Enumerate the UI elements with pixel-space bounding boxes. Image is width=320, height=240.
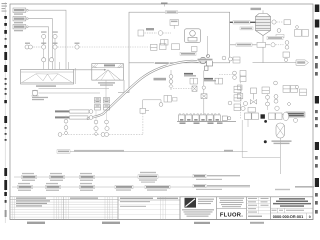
row B label 6: [193, 184, 250, 190]
standpipe: [143, 100, 161, 135]
instrument bubble pair left: [25, 45, 32, 49]
lower bubble column 1: [64, 119, 68, 134]
footer stamp 1: [27, 222, 45, 224]
blower discharge line 2: [39, 92, 101, 94]
V2 sub label: [98, 82, 115, 86]
mill feed box: [248, 108, 256, 113]
right margin note B: [275, 189, 290, 190]
stacked bubbles C: [266, 94, 270, 110]
info text: [248, 198, 269, 217]
lower bubble column 2: [94, 120, 98, 136]
analyzer boxes: [295, 26, 309, 37]
title separator: [271, 208, 314, 219]
instrument stack A stem: [43, 34, 45, 69]
box pair mid: [161, 40, 169, 46]
instrument bubble right: [75, 45, 79, 49]
control valve CV1: [250, 88, 256, 104]
dashed tap to X-box: [173, 88, 192, 90]
X-box: [192, 86, 197, 91]
top instrument box T1: [170, 20, 179, 29]
head box pair right: [240, 71, 246, 82]
left microfilm marks: [4, 16, 7, 217]
instrument stack B stem: [54, 34, 56, 69]
stray bubble: [228, 101, 232, 105]
row B label 4: [115, 185, 133, 190]
source flag F3: [13, 25, 28, 32]
V3 instruments right: [272, 20, 291, 33]
row B label 3: [80, 183, 95, 191]
bottoms label: [267, 36, 283, 39]
unit inner marks: [180, 119, 219, 120]
grid feed stub: [105, 80, 107, 97]
client logo: [185, 198, 197, 208]
crusher enclosure box: [129, 12, 230, 63]
V2 corner hatch right: [118, 64, 124, 68]
enclosure left leg: [128, 63, 130, 93]
footer stamp 2: [102, 222, 120, 224]
blower B1: [32, 90, 39, 96]
V2 bottoms pipe: [118, 80, 129, 93]
film strip header text: [2, 3, 8, 12]
small box right: [173, 98, 178, 102]
row A label 4: [138, 172, 158, 183]
head bubbles right: [222, 56, 236, 79]
boxes under crusher: [160, 44, 198, 52]
film strip line: [4, 2, 6, 223]
instrument stack C: [169, 70, 173, 90]
small diamond: [287, 102, 291, 106]
notes line N1: [57, 150, 248, 153]
offpage connector arrow: [296, 60, 309, 65]
source flag F2: [13, 17, 28, 24]
drop lines LR: [242, 119, 280, 157]
V2 header label: [104, 64, 115, 66]
blower tag text: [32, 97, 48, 100]
svg-text:FLUOR.: FLUOR.: [220, 211, 243, 218]
boxes right of head top: [233, 57, 240, 63]
bubble column stems: [66, 110, 107, 132]
line from F1: [28, 10, 66, 69]
reference drawing table: [118, 197, 180, 220]
right cluster boxes E: [283, 85, 307, 95]
junction dot: [264, 140, 267, 143]
signal line S-134: [58, 133, 143, 137]
line from F2: [28, 19, 52, 70]
mixer labels: [272, 140, 292, 144]
boxes A2: [234, 104, 241, 111]
head label 2: [204, 78, 216, 82]
certification text: [219, 198, 244, 208]
dark tag line: [272, 112, 305, 117]
V3 side label: [240, 27, 253, 30]
info grid: [247, 197, 271, 214]
signal dashes: [34, 46, 42, 48]
revision table grid: [10, 197, 118, 220]
revision entries: [16, 198, 98, 207]
hopper boxes row LR: [245, 112, 298, 122]
row A label 3: [80, 173, 95, 181]
head label 1: [184, 73, 196, 77]
row B label 2: [46, 183, 61, 191]
junction dot upper: [264, 120, 267, 123]
vessel V2 stacker bin: [92, 64, 124, 81]
row A label 2: [50, 173, 65, 181]
logo side text: [198, 199, 214, 205]
feeder label B: [55, 116, 69, 118]
instrument box grid text: [96, 98, 109, 106]
V2 corner hatch left: [93, 64, 99, 68]
enclosure inner label: [146, 28, 154, 30]
mill feed circle: [241, 106, 245, 110]
dark unit: [261, 114, 265, 118]
product line row: [230, 41, 289, 50]
enclosure drop: [207, 36, 209, 56]
V1 label: [36, 85, 56, 87]
squares drop line: [203, 71, 205, 115]
head signal dashes: [219, 74, 233, 76]
footer stamp 3: [194, 222, 210, 224]
row A label 5: [193, 174, 240, 180]
title block frame: [180, 197, 313, 220]
right margin note A: [295, 186, 314, 188]
continuation row B line: [12, 186, 250, 188]
V3 feed line: [230, 21, 256, 24]
enclosure label: [166, 11, 178, 14]
stack B bubbles: [49, 34, 57, 62]
V1 outlet line: [74, 68, 76, 84]
line from F3: [28, 27, 48, 70]
lower bubble column 3: [105, 120, 110, 131]
reference rows: [118, 205, 180, 215]
signal dashes mid: [58, 46, 75, 48]
footer stamp 4: [250, 222, 264, 224]
revision table: [10, 197, 118, 220]
V3 top label: [251, 8, 262, 10]
mixer M1 capsule: [276, 123, 285, 174]
head label upper: [197, 58, 213, 60]
scale text: [272, 210, 305, 211]
sampler box: [283, 52, 290, 62]
bagging units row: [177, 115, 236, 122]
right cluster boxes A: [234, 86, 241, 101]
vessel V1 dust collector: [21, 69, 74, 84]
right cluster boxes B: [262, 87, 269, 94]
fluor box separator: [217, 207, 247, 209]
V3 bottoms line: [262, 36, 264, 63]
panel box: [151, 44, 158, 50]
crusher CR1: [185, 29, 201, 43]
PSV mark: [276, 35, 284, 38]
source flag F1: [13, 8, 28, 15]
svg-text:0: 0: [309, 215, 311, 219]
belt feeder A: [70, 110, 89, 113]
row B label 1: [18, 183, 33, 191]
stacked bubbles D: [274, 81, 280, 110]
address text: [182, 209, 214, 217]
drawing title: [273, 198, 311, 207]
continuation row A line: [14, 176, 196, 178]
column vessel V3: [256, 14, 271, 36]
standpipe gauge 1: [140, 108, 149, 113]
offpage connector line: [253, 62, 297, 64]
belt end bubbles: [89, 110, 93, 120]
conveyor label top: [180, 52, 196, 55]
conveyor label mid2: [154, 62, 170, 65]
drop bubble: [202, 86, 205, 89]
V3 vent stub: [262, 10, 264, 13]
tag text above stacks: [41, 31, 58, 32]
box row left: [138, 30, 171, 36]
unit top circles: [179, 113, 220, 115]
row A label 1: [22, 173, 37, 181]
right small boxes: [238, 85, 243, 99]
right microfilm marks: [315, 5, 320, 214]
row B label 5: [145, 185, 170, 190]
stack A bubbles: [42, 34, 46, 62]
box pair BR: [215, 78, 223, 84]
conveyor head H1: [200, 55, 213, 71]
conveyor label mid: [154, 78, 167, 81]
box pair BL: [190, 78, 198, 84]
reference header text: [120, 198, 178, 207]
drop X-box: [201, 94, 207, 99]
svg-text:0000-000-DR-001: 0000-000-DR-001: [273, 215, 303, 219]
small box lower pair: [164, 96, 172, 103]
top border tick label: [161, 3, 168, 7]
blower discharge line 1: [39, 88, 110, 90]
bubble tag texts: [25, 43, 80, 44]
standpipe bubble: [159, 103, 163, 107]
instrument box grid: [95, 98, 110, 111]
unit labels: [180, 122, 223, 124]
nozzle stems V1: [60, 62, 69, 69]
belt feeder B: [70, 116, 88, 119]
bubble B1: [243, 101, 247, 105]
dashed drop right: [239, 75, 241, 120]
conveyor C1 curve: [87, 61, 201, 119]
feed line to V2: [74, 69, 107, 71]
signal dashes end: [80, 46, 150, 48]
feeder label A: [55, 110, 69, 112]
